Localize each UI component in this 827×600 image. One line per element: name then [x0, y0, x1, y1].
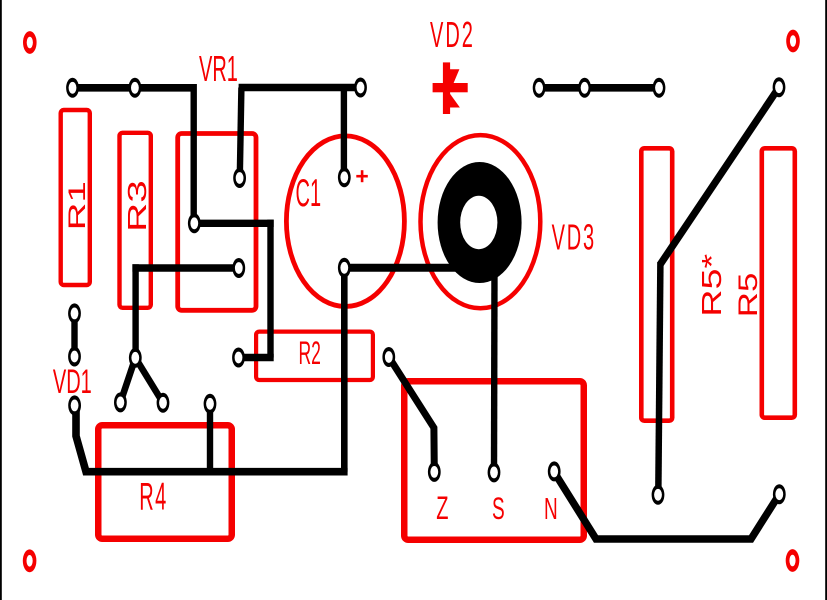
mounting hole top-right [786, 30, 800, 53]
pad 24 terminal N [548, 461, 561, 481]
svg-text:S: S [492, 493, 505, 527]
mounting hole bottom-right [786, 549, 800, 572]
resistor R4 outline [98, 425, 232, 539]
svg-text:VD1: VD1 [53, 362, 92, 400]
wire R2 right pad to Z terminal [389, 357, 435, 472]
pad 6 top middle right [354, 78, 367, 98]
wire Y junction left leg [120, 358, 135, 403]
pad 2 [129, 78, 142, 98]
pad 12 Y junction [129, 348, 142, 368]
pad 8 [578, 78, 591, 98]
svg-text:R3: R3 [123, 180, 152, 232]
wire top-right jumper [539, 84, 659, 92]
svg-text:VD2: VD2 [430, 15, 475, 56]
svg-text:R1: R1 [63, 181, 90, 230]
wire C1 minus to VD3 [344, 264, 465, 272]
pad 19 R2 right [382, 347, 395, 367]
pad 25 R5* bottom [652, 485, 665, 505]
capacitor C1 plus mark [356, 170, 368, 182]
board edge left [0, 0, 2, 600]
wire C1 plus vertical [341, 88, 347, 178]
pad 11 VR1 bottom [232, 258, 245, 278]
pad 15 VD1 top [68, 303, 81, 323]
resistor R1 outline [61, 110, 90, 285]
pad 7 [533, 78, 546, 98]
resistor R3 outline [120, 133, 151, 308]
pad 14 Y right [157, 393, 170, 413]
wire C1 minus down-left to VD1 [341, 268, 348, 472]
wire VD3 to S terminal [491, 267, 498, 472]
wire top-left horizontal [73, 84, 194, 92]
wire Y junction right leg [135, 358, 163, 403]
pad 23 terminal S [488, 462, 501, 482]
wire VR1 bottom pad to Y junction [132, 264, 238, 271]
pad 9 [653, 78, 666, 98]
terminal block outline [404, 381, 584, 540]
pad 4 VR1 top [233, 168, 246, 188]
pad 5 C1 plus [338, 167, 351, 187]
wire VR1 top pad vertical [240, 88, 242, 178]
wire right diagonal to R5* [661, 87, 780, 264]
pad 10 top right [773, 77, 786, 97]
svg-text:C1: C1 [296, 171, 322, 215]
pad 26 bottom right [773, 484, 786, 504]
pad 18 R2 left [232, 348, 245, 368]
svg-text:R5: R5 [733, 273, 763, 318]
svg-text:VR1: VR1 [199, 49, 238, 90]
svg-text:R4: R4 [139, 474, 168, 518]
mounting hole top-left [23, 31, 37, 54]
pad 16 VD1 mid [68, 347, 81, 367]
resistor R5* outline [641, 148, 672, 420]
toroid of VD3 [438, 162, 522, 283]
diode VD3 outline [421, 135, 541, 308]
svg-text:R5*: R5* [697, 254, 728, 317]
svg-text:Z: Z [436, 490, 448, 526]
svg-text:N: N [544, 493, 558, 527]
wire VR1 pad3 to R2 left pad [194, 220, 273, 227]
resistor R5 outline [762, 148, 795, 417]
diode VD2 symbol [433, 62, 468, 114]
svg-text:R2: R2 [299, 334, 321, 371]
pad 13 Y left [114, 392, 127, 412]
wire N terminal to bottom-right pad [554, 472, 779, 539]
pad 22 terminal Z [428, 462, 441, 482]
wire VD1 link [71, 313, 77, 356]
pad 1 [66, 78, 79, 98]
mounting hole bottom-left [23, 549, 37, 572]
svg-text:VD3: VD3 [552, 217, 596, 258]
pad 20 C1 minus [338, 258, 351, 278]
pad 3 VR1 left [188, 213, 201, 233]
wire R4 top pad drop [207, 404, 213, 472]
resistor R2 outline [256, 332, 373, 380]
wire VR1 top to C1 plus horizontal [239, 84, 361, 92]
board edge right [825, 0, 827, 600]
pad 21 R4 top [204, 394, 217, 414]
wire VR1 left vertical [190, 84, 196, 223]
capacitor C1 outline [286, 136, 404, 307]
trimmer VR1 outline [178, 134, 256, 311]
pad 17 VD1 bottom [68, 395, 81, 415]
